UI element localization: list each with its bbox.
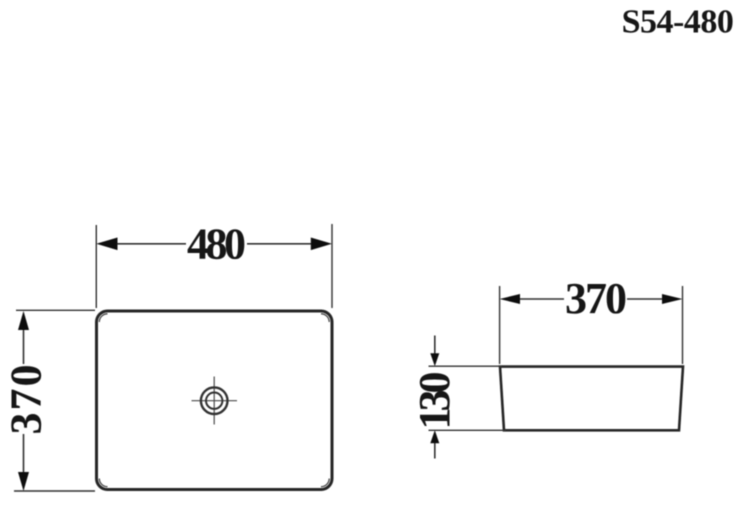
dimension line 370 upper segment bbox=[23, 328, 25, 364]
svg-text:370: 370 bbox=[2, 365, 51, 435]
dimension line 130 lower tail bbox=[434, 441, 436, 459]
svg-text:S54-480: S54-480 bbox=[622, 4, 734, 41]
dimension line 480 left segment bbox=[114, 243, 186, 245]
basin outer rim (top view) bbox=[97, 311, 333, 490]
dimension line 480 right segment bbox=[247, 243, 314, 245]
extension line top of 130 dim bbox=[429, 365, 503, 367]
basin side profile bbox=[500, 367, 683, 431]
arrowhead 130 down (above top line, pointing down) bbox=[430, 353, 439, 366]
arrowhead 130 up (below bottom line, pointing up) bbox=[430, 430, 439, 443]
extension line left of 480 dim bbox=[95, 225, 97, 308]
arrowhead 370 down bbox=[18, 472, 29, 491]
extension line left of 370 side dim bbox=[499, 286, 501, 364]
extension line top of 370 dim (plan) bbox=[16, 309, 95, 311]
svg-text:130: 130 bbox=[410, 372, 459, 430]
drain outer circle bbox=[201, 387, 228, 414]
extension line bottom of 370 dim (plan) bbox=[14, 490, 95, 492]
extension line right of 480 dim bbox=[331, 224, 333, 308]
arrowhead 370 up bbox=[18, 311, 29, 330]
extension line right of 370 side dim bbox=[682, 286, 684, 364]
drain crosshair vertical bbox=[213, 377, 215, 425]
dimension line 370 side right segment bbox=[627, 298, 665, 300]
arrowhead 480 left bbox=[96, 238, 117, 251]
drain crosshair horizontal bbox=[192, 400, 238, 402]
arrowhead 370 side left bbox=[500, 294, 520, 304]
basin inner rim corner arc top-right bbox=[321, 314, 329, 322]
svg-text:480: 480 bbox=[187, 220, 246, 269]
arrowhead 480 right bbox=[311, 238, 332, 251]
drain inner circle bbox=[206, 393, 222, 409]
basin inner rim corner arc bottom-right bbox=[321, 479, 329, 487]
dimension line 370 lower segment bbox=[23, 434, 25, 474]
basin inner rim corner arc bottom-left bbox=[99, 479, 107, 487]
basin inner rim corner arc top-left bbox=[99, 314, 107, 322]
dimension line 130 upper tail bbox=[434, 336, 436, 357]
arrowhead 370 side right bbox=[662, 294, 683, 304]
dimension line 370 side left segment bbox=[517, 298, 564, 300]
svg-text:370: 370 bbox=[565, 274, 627, 323]
extension line bottom of 130 dim bbox=[429, 429, 507, 431]
